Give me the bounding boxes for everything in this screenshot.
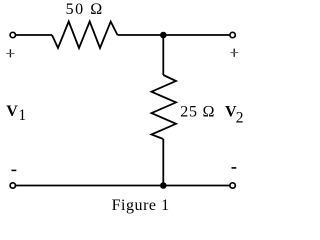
- svg-text:Figure 1: Figure 1: [112, 197, 170, 214]
- svg-text:1: 1: [18, 107, 26, 124]
- svg-text:50 Ω: 50 Ω: [66, 1, 103, 18]
- svg-text:V: V: [6, 103, 18, 120]
- svg-text:25 Ω: 25 Ω: [180, 104, 214, 121]
- svg-text:2: 2: [236, 109, 244, 126]
